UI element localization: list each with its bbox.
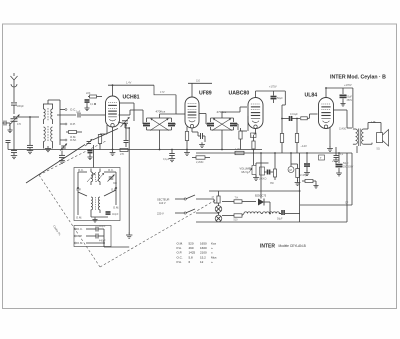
node OC <box>65 108 76 112</box>
svg-text:220 V: 220 V <box>157 212 164 216</box>
ground <box>110 150 116 155</box>
wire <box>260 153 262 199</box>
wire left tail <box>6 141 11 150</box>
wire <box>222 201 256 203</box>
motor M symbol <box>288 153 294 173</box>
label OM <box>75 241 84 245</box>
resistor R5 <box>185 127 188 150</box>
capacitor C3 <box>27 145 33 147</box>
IFT1 capacitor left <box>143 118 150 130</box>
capacitor C21 cath <box>334 152 344 158</box>
capacitor C14 AVC <box>163 150 175 162</box>
node OP <box>65 122 76 126</box>
wire PSU box right <box>300 153 352 205</box>
svg-text:5,8: 5,8 <box>189 255 194 259</box>
label 470Kcs <box>217 110 227 114</box>
svg-text:470Kcs: 470Kcs <box>156 110 166 114</box>
svg-text:110: 110 <box>196 80 201 83</box>
wire <box>240 107 247 112</box>
coil L7 <box>91 197 93 210</box>
label UF89 <box>199 91 212 97</box>
svg-text:B250 C75: B250 C75 <box>255 195 267 198</box>
trimmer CT3 <box>108 175 118 186</box>
svg-text:1425: 1425 <box>189 251 196 255</box>
capacitor C8 <box>59 151 65 158</box>
capacitor C4 grid coupling <box>57 111 97 118</box>
label 1140 <box>339 128 346 131</box>
ground <box>327 146 333 151</box>
tube U4 UL84 <box>319 98 334 129</box>
resistor R4 osc <box>66 131 82 140</box>
coil L2 <box>51 104 53 124</box>
svg-text:1nF: 1nF <box>76 111 81 114</box>
svg-text:200KΩ: 200KΩ <box>259 178 267 181</box>
svg-text:O.M.: O.M. <box>76 216 82 220</box>
tube U2 UF89 <box>185 97 199 128</box>
label SECTEUR <box>157 198 170 206</box>
label OP <box>76 188 81 192</box>
wire speaker link <box>364 123 382 145</box>
svg-text:17V: 17V <box>160 90 165 94</box>
svg-text:520: 520 <box>189 242 194 246</box>
core <box>47 126 49 142</box>
label OM <box>113 206 119 210</box>
label UL84 <box>305 93 318 99</box>
wire <box>253 153 255 165</box>
capacitor C9 <box>106 211 119 216</box>
svg-text:Kcs: Kcs <box>211 242 217 246</box>
wire <box>261 202 270 214</box>
svg-text:O.C.: O.C. <box>78 168 84 172</box>
trimmer CT2 <box>60 144 67 151</box>
wire <box>118 122 126 135</box>
wire grid <box>176 113 185 115</box>
switch S2 mains <box>175 209 219 214</box>
resistor R17 grid <box>280 119 283 154</box>
wire B+ drop <box>352 88 354 128</box>
IFT1 capacitor right <box>168 118 175 130</box>
resistor R7 <box>251 133 257 138</box>
wire <box>199 114 238 131</box>
IFT2 tuned coils <box>211 118 234 131</box>
IFT2 capacitor left <box>207 118 214 130</box>
label VOLUME <box>240 167 253 174</box>
label UCH81 <box>123 95 140 101</box>
svg-text:SECTEUR: SECTEUR <box>157 198 170 202</box>
svg-text:O.C.: O.C. <box>77 227 83 231</box>
coil L5 <box>87 169 95 183</box>
wire <box>13 122 15 149</box>
svg-text:440pF: 440pF <box>99 241 106 243</box>
coil L6 <box>96 169 104 183</box>
frame antenna dashed outline <box>39 141 219 267</box>
svg-text:O.M.: O.M. <box>177 242 184 246</box>
capacitor C7 <box>124 135 129 147</box>
svg-text:O.P.: O.P. <box>177 251 183 255</box>
svg-text:O.C.: O.C. <box>108 168 114 172</box>
wire diagonal link <box>26 129 118 184</box>
wire cathode <box>112 127 114 150</box>
svg-text:INTER: INTER <box>260 244 275 250</box>
resistor R19 350 <box>270 153 277 185</box>
wire AVC rail <box>8 149 262 151</box>
resistor R15 15k <box>302 180 316 185</box>
wire <box>91 182 108 217</box>
label OM <box>76 216 82 220</box>
resistor R10 <box>259 167 267 181</box>
wire <box>13 105 15 114</box>
svg-text:110pF: 110pF <box>99 226 106 228</box>
potentiometer P1 <box>249 166 256 175</box>
capacitor C2 50pF <box>11 149 17 153</box>
resistor R8 <box>252 135 255 153</box>
svg-text:350V: 350V <box>347 99 353 102</box>
resistor R21 grid stop <box>301 114 318 120</box>
speaker SP1 <box>377 130 389 151</box>
wire anode up <box>256 91 286 98</box>
svg-text:O.M.: O.M. <box>70 135 76 139</box>
svg-text:490: 490 <box>189 246 194 250</box>
capacitor C13 decoupling <box>271 91 284 103</box>
wire <box>143 123 176 125</box>
capacitor C1 100pF <box>11 103 24 108</box>
resistor R11 47ohm <box>212 191 221 203</box>
coil L4 <box>51 127 53 149</box>
ground <box>199 142 205 147</box>
IFT1 tuned coils <box>147 118 172 131</box>
wire <box>160 95 177 118</box>
wire <box>119 110 144 124</box>
wire PSU bottom rail <box>196 221 347 223</box>
ground <box>7 128 12 133</box>
label 175V <box>269 85 277 89</box>
svg-text:110 V: 110 V <box>159 201 166 205</box>
svg-text:1600: 1600 <box>200 246 207 250</box>
svg-text:15,2: 15,2 <box>200 255 206 259</box>
wire osc box internals <box>77 172 117 215</box>
resistor R13 <box>222 214 242 222</box>
svg-text:+175V: +175V <box>269 85 277 89</box>
resistor R9 2.2M <box>192 156 210 164</box>
label UABC80 <box>229 91 250 97</box>
svg-text:0,01µF: 0,01µF <box>290 113 298 116</box>
svg-text:+170V: +170V <box>344 83 352 87</box>
choke CH1 <box>242 212 261 216</box>
svg-text:O.M.: O.M. <box>113 206 119 210</box>
wire anode top UL84 <box>326 83 353 98</box>
wire anode to OT <box>334 110 353 128</box>
capacitor C22 <box>88 150 93 157</box>
capacitor C19 5nF <box>282 110 300 121</box>
svg-text:UL84: UL84 <box>305 93 318 99</box>
core <box>95 197 97 210</box>
svg-text:O.C.: O.C. <box>177 255 183 259</box>
label OP <box>0 0 1 1</box>
wire <box>159 130 161 150</box>
ground <box>84 106 89 111</box>
label OC <box>108 168 114 172</box>
capacitor C17 2x25uF <box>300 153 310 177</box>
tube U3 UABC80 <box>248 98 263 129</box>
ground <box>253 175 259 181</box>
ground <box>336 171 342 176</box>
svg-text:110pF: 110pF <box>112 214 119 216</box>
svg-text:P.A.: P.A. <box>177 246 182 250</box>
resistor R1 22k <box>86 92 102 98</box>
svg-text:5Ω: 5Ω <box>377 148 380 151</box>
label Cadre PL <box>52 224 62 236</box>
ground <box>126 233 132 239</box>
antenna PL <box>11 73 18 102</box>
wire <box>299 153 301 191</box>
resistor R20 <box>235 148 244 155</box>
ground <box>45 146 51 152</box>
ground <box>169 156 175 162</box>
svg-text:–14V: –14V <box>301 144 307 148</box>
resistor R12 TH <box>234 197 242 204</box>
svg-text:M: M <box>290 168 292 172</box>
label INTER Modele CEYLAN-B <box>260 244 306 250</box>
label OP <box>111 188 116 192</box>
svg-text:HS: HS <box>372 120 376 124</box>
svg-text:1,2K: 1,2K <box>235 148 240 151</box>
lamp LP2 <box>215 215 222 222</box>
wire band switch <box>60 100 65 145</box>
variable capacitor CV-osc <box>121 117 130 127</box>
svg-text:22K: 22K <box>86 92 91 95</box>
svg-text:250/300V: 250/300V <box>343 166 354 169</box>
coil L3 OM <box>44 127 46 149</box>
tube U1 UCH81 <box>106 96 120 127</box>
ground <box>184 150 190 155</box>
ground <box>295 180 301 185</box>
ground <box>333 158 339 163</box>
resistor R6 diode load <box>239 128 242 150</box>
transformer TR1 output <box>353 129 364 147</box>
wire anode top <box>112 85 114 96</box>
wire det <box>254 129 256 135</box>
svg-text:UCH81: UCH81 <box>123 95 140 101</box>
capacitor C18 50uF 300V <box>332 153 354 172</box>
svg-text:MU lg.: MU lg. <box>242 170 250 174</box>
wire <box>154 85 176 95</box>
capacitor C5 <box>3 121 11 130</box>
svg-text:UABC80: UABC80 <box>229 91 250 97</box>
coil box outline <box>74 168 120 221</box>
ground <box>304 170 310 175</box>
wire <box>14 117 30 145</box>
svg-text:2100: 2100 <box>200 251 207 255</box>
svg-text:27K: 27K <box>120 153 125 156</box>
svg-text:100pF: 100pF <box>17 104 25 108</box>
ground <box>59 158 65 163</box>
lamp LP1 <box>215 206 222 213</box>
svg-text:O.M.: O.M. <box>77 241 83 245</box>
coil L1 OC <box>44 104 46 124</box>
wire anode <box>191 83 193 97</box>
rectifier D1 B250C75 <box>255 195 270 206</box>
IFT2 capacitor right <box>230 118 237 130</box>
capacitor C20 50uF <box>340 88 353 102</box>
core <box>95 172 97 182</box>
title text INTER Mod. Ceylan - B <box>330 75 386 81</box>
svg-text:1650: 1650 <box>200 242 207 246</box>
resistor R14 <box>291 164 299 181</box>
wire <box>125 123 129 128</box>
ground <box>11 153 17 159</box>
svg-text:470: 470 <box>17 123 22 126</box>
wire top rail 1 <box>108 81 154 86</box>
capacitor C12 <box>192 128 205 142</box>
switch S1 mains <box>175 195 219 203</box>
resistor R3 <box>120 149 128 157</box>
wire HT rail <box>196 152 352 154</box>
wire <box>30 116 39 118</box>
wire cathode UL84 <box>330 127 336 152</box>
label 220V <box>157 212 164 216</box>
wire grid <box>97 114 106 116</box>
svg-text:P.A.: P.A. <box>177 260 182 264</box>
svg-text:12: 12 <box>200 260 204 264</box>
ground <box>340 102 345 107</box>
wire <box>86 229 129 247</box>
wire screen <box>119 103 134 121</box>
svg-text:T.H.: T.H. <box>235 197 240 200</box>
switch box outline <box>74 226 111 247</box>
svg-text:2,2MΩ: 2,2MΩ <box>196 161 204 164</box>
core <box>47 108 49 121</box>
svg-text:1,4V: 1,4V <box>126 81 132 85</box>
svg-text:50µF: 50µF <box>277 218 283 221</box>
wire <box>93 145 95 168</box>
wire <box>221 130 223 150</box>
svg-text:Mcs: Mcs <box>211 255 217 259</box>
resistor R2 cathode <box>98 125 107 150</box>
svg-text:1140Ω: 1140Ω <box>339 128 346 131</box>
wire <box>222 112 240 118</box>
wire <box>43 100 60 104</box>
label 470Kcs <box>156 110 166 114</box>
svg-text:UF89: UF89 <box>199 91 212 97</box>
label OC <box>75 227 83 231</box>
capacitor C11 440pF <box>86 234 106 243</box>
svg-text:O.P.: O.P. <box>70 122 76 126</box>
variable capacitor CV-ant <box>9 115 22 127</box>
label OC <box>78 168 84 172</box>
label OP <box>75 234 83 238</box>
svg-text:510: 510 <box>234 219 239 222</box>
wire OT bottom <box>356 146 358 153</box>
trimmer CT1 <box>85 139 92 146</box>
frequency table <box>177 242 217 264</box>
capacitor C15 <box>256 163 273 175</box>
label HS <box>372 120 376 124</box>
label -14V <box>301 144 307 148</box>
svg-text:Modèle CEYLAN-B: Modèle CEYLAN-B <box>279 244 306 248</box>
capacitor C6 <box>85 99 94 107</box>
capacitor C10 110pF <box>86 226 106 232</box>
wire tuning drop <box>128 128 130 234</box>
resistor R16 T <box>319 155 325 160</box>
svg-text:50µF: 50µF <box>277 97 283 100</box>
node OM <box>65 138 77 142</box>
ground <box>87 155 92 160</box>
wire <box>241 116 249 131</box>
choke CH2 <box>263 212 280 214</box>
wire <box>346 153 348 222</box>
ground <box>92 218 97 223</box>
wire <box>218 203 220 222</box>
ground <box>27 148 33 154</box>
resistor R18 <box>295 119 298 154</box>
ground <box>313 184 318 189</box>
wire top rail 2 <box>188 80 212 84</box>
svg-text:INTER Mod. Ceylan · B: INTER Mod. Ceylan · B <box>330 75 386 81</box>
capacitor C16 filter <box>277 210 288 221</box>
wire heater rail <box>209 190 300 192</box>
coil L8 <box>98 197 100 210</box>
wire <box>280 191 300 222</box>
wire <box>282 91 285 110</box>
